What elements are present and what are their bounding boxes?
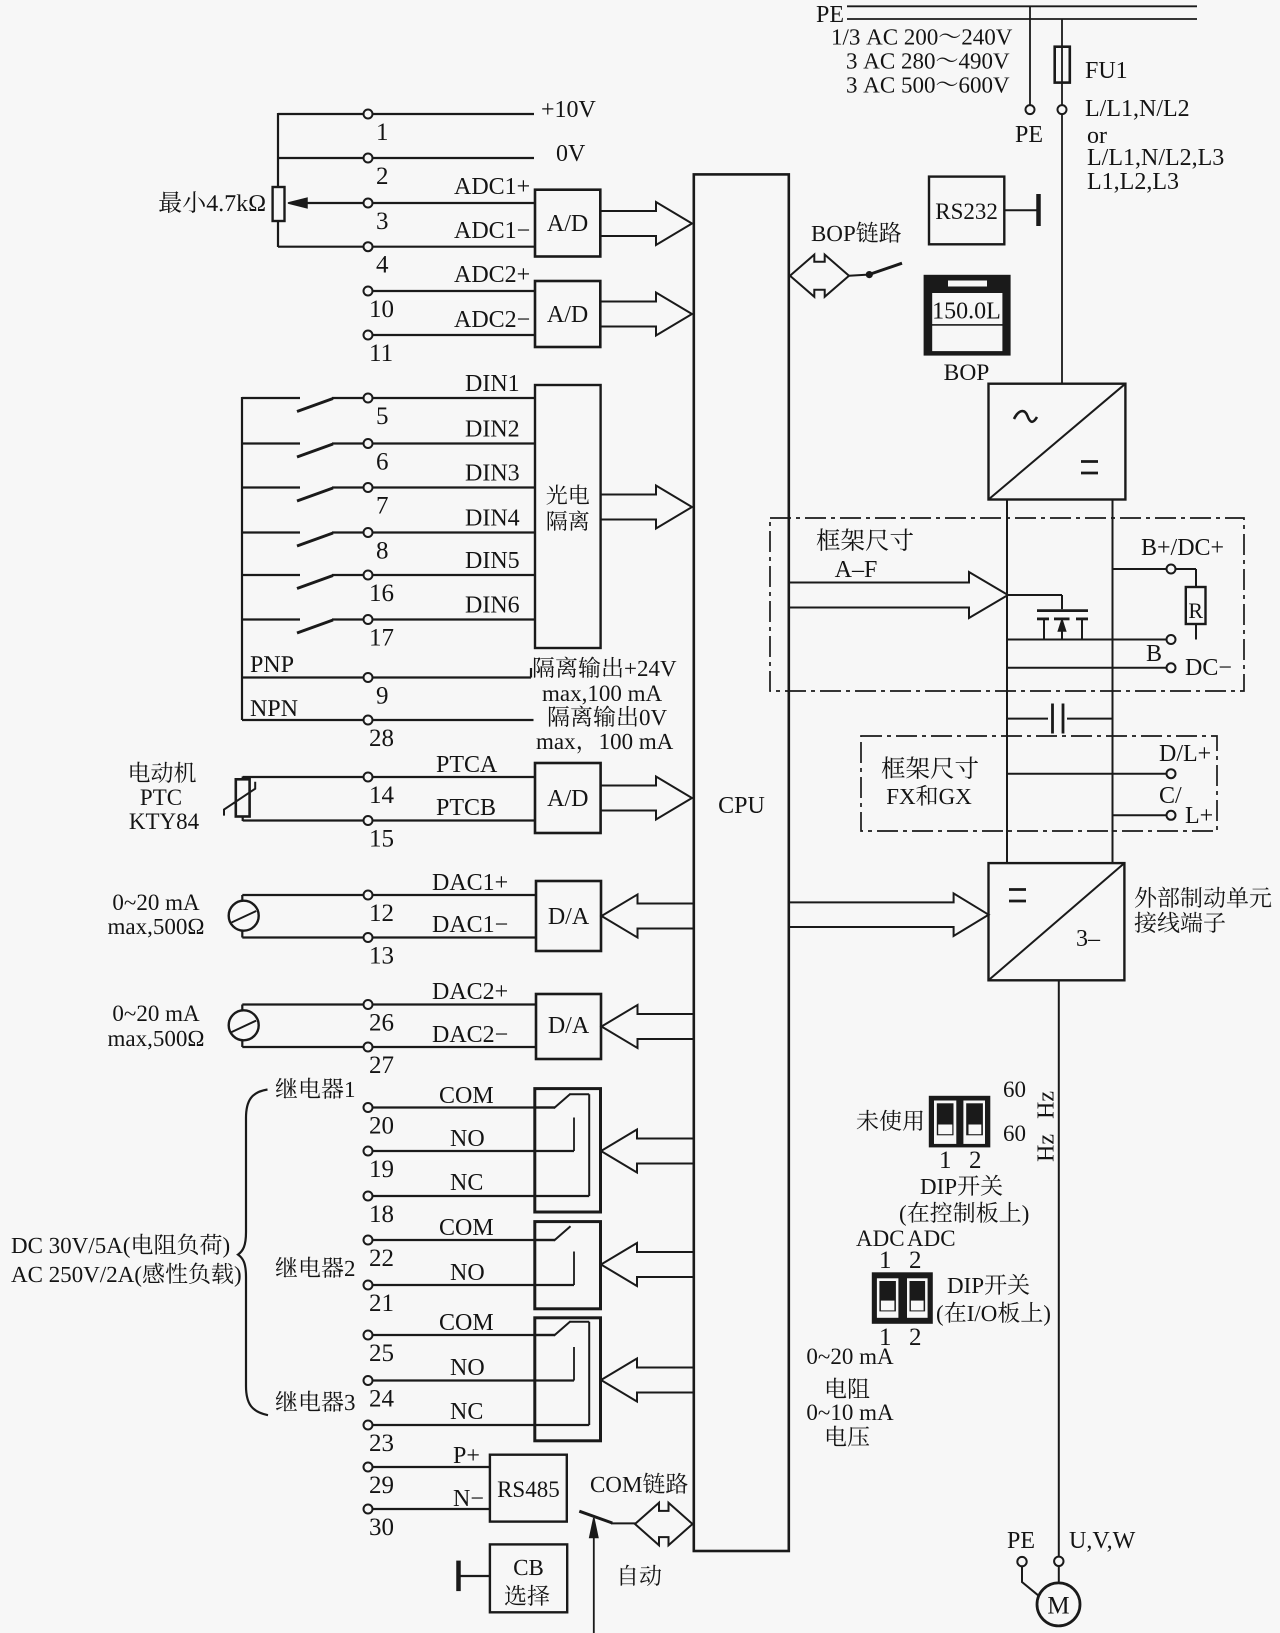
- svg-text:0~20 mA: 0~20 mA: [112, 1001, 200, 1026]
- node terminal 1: [364, 110, 373, 119]
- label 继电器3: [276, 1391, 355, 1412]
- wire resistor to B: [1195, 624, 1197, 640]
- wire PTCA terminal 14: [243, 776, 535, 778]
- svg-text:PTCB: PTCB: [436, 795, 496, 821]
- svg-text:N−: N−: [453, 1486, 484, 1512]
- svg-text:DIN4: DIN4: [465, 506, 520, 532]
- label FX和GX: [887, 785, 972, 806]
- svg-text:NO: NO: [450, 1260, 485, 1286]
- wire chopper output B: [1007, 639, 1167, 641]
- wire COM relay3 terminal 25: [372, 1334, 555, 1336]
- node terminal 14: [364, 773, 373, 782]
- current meter DAC1: [229, 901, 259, 931]
- label NPN: [251, 700, 298, 716]
- svg-text:24: 24: [369, 1386, 395, 1413]
- wire DIN2 stub: [242, 442, 300, 444]
- label max,500Ω (DAC2): [108, 1031, 203, 1050]
- node terminal 12: [364, 891, 373, 900]
- CB selection box: [490, 1544, 567, 1612]
- RS232 box: [929, 177, 1004, 245]
- svg-text:0~10 mA: 0~10 mA: [806, 1400, 894, 1425]
- node terminal 2: [364, 154, 373, 163]
- switch DIN4: [297, 533, 333, 546]
- svg-text:16: 16: [369, 580, 394, 607]
- svg-text:0V: 0V: [556, 141, 586, 167]
- switch DIN1: [297, 399, 333, 412]
- node terminal 22: [364, 1236, 373, 1245]
- relay box: [535, 1222, 601, 1309]
- svg-text:M: M: [1047, 1593, 1069, 1620]
- svg-text:25: 25: [369, 1340, 394, 1367]
- wire DIN2 terminal 6: [332, 442, 535, 444]
- svg-text:DIN3: DIN3: [465, 461, 520, 487]
- wire N- terminal 30: [372, 1508, 490, 1510]
- wire isolated output 0V terminal 28: [242, 719, 534, 721]
- wire DAC1- terminal 13: [242, 936, 536, 938]
- wire NC relay3 terminal 23: [372, 1424, 589, 1426]
- svg-text:U,V,W: U,V,W: [1069, 1528, 1136, 1554]
- node terminal 23: [364, 1421, 373, 1430]
- svg-text:1: 1: [939, 1147, 952, 1174]
- label 框架尺寸 (A-F): [817, 528, 913, 551]
- svg-text:23: 23: [369, 1430, 394, 1457]
- wire B+ to resistor: [1176, 568, 1197, 570]
- relay contact blade: [535, 1106, 555, 1108]
- svg-text:DAC1−: DAC1−: [432, 912, 508, 938]
- svg-text:PE: PE: [1015, 122, 1043, 148]
- svg-text:1: 1: [376, 119, 389, 146]
- opto-isolation box 光电隔离: [535, 385, 601, 648]
- label PNP: [251, 656, 293, 672]
- potentiometer wiper arrow: [307, 202, 364, 204]
- wire mains to rectifier: [1061, 114, 1063, 384]
- node terminal 21: [364, 1281, 373, 1290]
- label 继电器2: [276, 1257, 354, 1278]
- node DC- terminal: [1167, 663, 1176, 672]
- svg-text:17: 17: [369, 625, 394, 652]
- label 框架尺寸 (FX/GX): [882, 756, 978, 779]
- node terminal 26: [364, 1000, 373, 1009]
- svg-text:14: 14: [369, 782, 395, 809]
- svg-text:DIN1: DIN1: [465, 371, 520, 397]
- wire CB terminator: [460, 1575, 490, 1577]
- digital input bus wire: [241, 397, 243, 720]
- node terminal 10: [364, 287, 373, 296]
- svg-text:ADC1−: ADC1−: [454, 218, 530, 244]
- node terminal 18: [364, 1192, 373, 1201]
- svg-text:A/D: A/D: [547, 211, 588, 237]
- arrow CPU to braking chopper: [789, 572, 1008, 618]
- svg-text:0~20 mA: 0~20 mA: [112, 890, 200, 915]
- node B+/DC+ terminal: [1167, 565, 1176, 574]
- svg-text:ADC2+: ADC2+: [454, 262, 530, 288]
- svg-text:ADC2−: ADC2−: [454, 307, 530, 333]
- label ~ (rectifier): [1014, 411, 1037, 422]
- wire isolated output +24V terminal 9: [242, 676, 531, 678]
- node terminal 5: [364, 394, 373, 403]
- potentiometer bus wire: [277, 113, 279, 188]
- svg-text:3–: 3–: [1076, 926, 1101, 952]
- svg-text:28: 28: [369, 725, 394, 752]
- wire ADC2+ terminal 10: [368, 290, 535, 292]
- svg-text:Hz: Hz: [1034, 1134, 1060, 1162]
- arrow CPU to relay1: [601, 1130, 693, 1173]
- svg-text:A/D: A/D: [547, 302, 588, 328]
- svg-text:C/: C/: [1159, 783, 1182, 809]
- svg-text:2: 2: [909, 1324, 922, 1351]
- label 电动机: [130, 762, 195, 783]
- svg-text:27: 27: [369, 1052, 394, 1079]
- wire B+/DC+: [1113, 568, 1167, 570]
- node terminal 9: [364, 673, 373, 682]
- COM link double arrow: [635, 1503, 693, 1546]
- transistor braking chopper: [1007, 594, 1062, 596]
- potentiometer 4.7k: [273, 187, 285, 221]
- svg-text:21: 21: [369, 1290, 394, 1317]
- label 未使用: [857, 1110, 923, 1131]
- svg-text:RS232: RS232: [935, 199, 998, 224]
- svg-text:L/L1,N/L2: L/L1,N/L2: [1085, 96, 1190, 122]
- A/D converter box 1: [535, 190, 600, 257]
- svg-text:PE: PE: [1007, 1528, 1035, 1554]
- svg-text:1: 1: [879, 1247, 892, 1274]
- wire mains drop: [1061, 19, 1063, 105]
- svg-text:0~20 mA: 0~20 mA: [806, 1344, 894, 1369]
- svg-text:26: 26: [369, 1010, 394, 1037]
- svg-text:9: 9: [376, 683, 389, 710]
- svg-text:60: 60: [1003, 1077, 1026, 1102]
- BOP operator panel: [924, 275, 1011, 356]
- node terminal 29: [364, 1463, 373, 1472]
- label 接线端子: [1135, 912, 1225, 933]
- node terminal 7: [364, 483, 373, 492]
- svg-text:2: 2: [909, 1247, 922, 1274]
- wire ADC2- terminal 11: [368, 334, 535, 336]
- node terminal 20: [364, 1103, 373, 1112]
- svg-text:18: 18: [369, 1201, 394, 1228]
- label DIP开关 (control board): [921, 1175, 1003, 1196]
- node terminal 8: [364, 528, 373, 537]
- wire DC-: [1007, 667, 1167, 669]
- mains bus line: [847, 18, 1197, 20]
- current meter DAC2: [229, 1010, 259, 1040]
- svg-text:R: R: [1188, 598, 1203, 623]
- svg-text:Hz: Hz: [1034, 1091, 1060, 1119]
- wire BOP link to switch: [849, 274, 866, 277]
- wire DIN6 stub: [242, 618, 300, 620]
- switch DIN3: [297, 488, 333, 501]
- label 外部制动单元: [1135, 887, 1271, 908]
- wire ADC1- terminal 4: [278, 246, 535, 248]
- svg-text:BOP: BOP: [944, 360, 990, 386]
- svg-text:29: 29: [369, 1472, 394, 1499]
- svg-text:D/L+: D/L+: [1159, 741, 1211, 767]
- wire DIN5 stub: [242, 574, 300, 576]
- wire blade to COM link arrow: [611, 1522, 636, 1524]
- node terminal 15: [364, 816, 373, 825]
- motor output wire: [1058, 980, 1060, 1557]
- svg-text:DAC2−: DAC2−: [432, 1022, 508, 1048]
- svg-text:22: 22: [369, 1245, 394, 1272]
- label 电压: [827, 1426, 869, 1447]
- wire DIN6 terminal 17: [332, 618, 535, 620]
- svg-text:PTC: PTC: [140, 785, 182, 810]
- wire PE drop: [1029, 6, 1031, 105]
- svg-text:D/A: D/A: [548, 1013, 590, 1039]
- wire D/L+: [1007, 773, 1167, 775]
- label max，100 mA: [536, 734, 673, 754]
- svg-text:10: 10: [369, 296, 394, 323]
- label AC 250V/2A(感性负载): [11, 1262, 240, 1286]
- DIP switch block 2: [872, 1272, 933, 1324]
- node terminal 24: [364, 1376, 373, 1385]
- svg-text:30: 30: [369, 1514, 394, 1541]
- node terminal 16: [364, 571, 373, 580]
- wire DIN1 stub: [242, 397, 300, 399]
- node mains terminal: [1058, 105, 1067, 114]
- label 3 AC 500~600V: [847, 77, 1009, 93]
- motor M: [1037, 1583, 1080, 1626]
- RS232 connector bar: [1036, 194, 1041, 226]
- wire COM relay1 terminal 20: [372, 1106, 555, 1108]
- relay NO stub: [573, 1118, 575, 1152]
- label 电阻: [827, 1378, 870, 1399]
- svg-text:11: 11: [369, 340, 393, 367]
- svg-text:12: 12: [369, 900, 394, 927]
- relay NO stub: [573, 1252, 575, 1286]
- inverter box: [989, 863, 1125, 980]
- svg-text:max,100 mA: max,100 mA: [542, 681, 662, 706]
- D/A converter box 1: [536, 881, 601, 951]
- relay box: [535, 1318, 601, 1441]
- label 在I/O板上: [937, 1302, 1050, 1326]
- svg-text:L1,L2,L3: L1,L2,L3: [1087, 169, 1179, 195]
- node terminal 28: [364, 716, 373, 725]
- svg-text:B: B: [1146, 641, 1162, 667]
- svg-text:A–F: A–F: [835, 557, 878, 583]
- wire +10V terminal 1: [278, 113, 534, 115]
- wire DIN1 terminal 5: [332, 397, 535, 399]
- wire NO relay3 terminal 24: [372, 1379, 574, 1381]
- wire COM relay2 terminal 22: [372, 1239, 555, 1241]
- wire NO relay2 terminal 21: [372, 1284, 574, 1286]
- wire DIN3 terminal 7: [332, 486, 535, 488]
- label 隔离输出0V: [549, 705, 667, 726]
- svg-text:2: 2: [376, 163, 389, 190]
- arrow A/D2 to CPU: [600, 293, 692, 336]
- svg-text:NO: NO: [450, 1126, 485, 1152]
- svg-text:6: 6: [376, 449, 389, 476]
- node D/L+ terminal: [1167, 769, 1176, 778]
- DC link capacitor: [1007, 718, 1048, 720]
- svg-text:ADC1+: ADC1+: [454, 174, 530, 200]
- relay box: [535, 1089, 601, 1212]
- svg-text:KTY84: KTY84: [129, 809, 200, 834]
- svg-text:B+/DC+: B+/DC+: [1141, 535, 1224, 561]
- wire DAC1+ terminal 12: [242, 894, 536, 896]
- svg-text:19: 19: [369, 1156, 394, 1183]
- frame A-F dash-dot box: [770, 518, 1244, 691]
- svg-text:NC: NC: [450, 1399, 483, 1425]
- node terminal 13: [364, 933, 373, 942]
- relay contact blade: [535, 1334, 555, 1336]
- wire DIN5 terminal 16: [332, 574, 535, 576]
- A/D converter box 3: [535, 763, 601, 833]
- switch DIN5: [297, 576, 333, 589]
- svg-text:PE: PE: [816, 2, 844, 28]
- label = (rectifier): [1081, 460, 1098, 463]
- svg-text:DIN6: DIN6: [465, 593, 520, 619]
- arrow A/D1 to CPU: [600, 202, 692, 245]
- relay contact blade: [535, 1239, 555, 1241]
- label 在控制板上: [900, 1202, 1028, 1226]
- wire C/L+: [1113, 814, 1167, 816]
- svg-text:NC: NC: [450, 1170, 483, 1196]
- svg-text:DIN2: DIN2: [465, 417, 520, 443]
- wire RS232 port: [1004, 209, 1036, 211]
- arrow A/D3 to CPU: [601, 777, 692, 820]
- arrow CPU to relay2: [601, 1243, 693, 1286]
- label DIP开关 (I/O board): [948, 1274, 1030, 1295]
- svg-text:COM: COM: [439, 1215, 494, 1241]
- wire PTCB terminal 15: [243, 819, 535, 821]
- svg-text:COM: COM: [439, 1083, 494, 1109]
- svg-text:3: 3: [376, 208, 389, 235]
- thermistor PTC sensor: [236, 779, 250, 816]
- wire NC relay1 terminal 18: [372, 1195, 589, 1197]
- label 继电器1: [276, 1078, 354, 1099]
- node C/L+ terminal: [1167, 811, 1176, 820]
- label 自动: [621, 1565, 661, 1586]
- arrow CPU to D/A2: [602, 1005, 694, 1048]
- wire DAC2- terminal 27: [242, 1046, 536, 1048]
- fuse FU1: [1055, 47, 1070, 83]
- DIP switch block 1: [929, 1096, 991, 1148]
- svg-text:FU1: FU1: [1085, 58, 1128, 84]
- node terminal 11: [364, 331, 373, 340]
- wire DIN3 stub: [242, 486, 300, 488]
- svg-text:+10V: +10V: [541, 97, 597, 123]
- node PE terminal: [1026, 105, 1035, 114]
- wire 0V terminal 2: [278, 157, 534, 159]
- svg-text:2: 2: [969, 1147, 982, 1174]
- svg-text:L+: L+: [1185, 803, 1213, 829]
- node terminal 30: [364, 1505, 373, 1514]
- D/A converter box 2: [536, 994, 601, 1059]
- label DC 30V/5A(电阻负荷): [12, 1233, 229, 1257]
- BOP link selector dot: [866, 271, 873, 278]
- node terminal 19: [364, 1147, 373, 1156]
- svg-text:20: 20: [369, 1113, 394, 1140]
- arrow CPU to D/A1: [602, 895, 694, 938]
- PE bus line: [847, 5, 1197, 7]
- wire ADC1+ terminal 3: [372, 202, 535, 204]
- node UVW terminal: [1054, 1557, 1063, 1566]
- switch DIN2: [297, 444, 333, 457]
- CB terminator bar: [456, 1561, 461, 1592]
- label 最小4.7kΩ: [159, 191, 265, 213]
- label 3 AC 280~490V: [847, 53, 1009, 69]
- frame FX/GX dash-dot box: [861, 736, 1217, 831]
- svg-text:7: 7: [376, 493, 389, 520]
- BOP link selector blade: [872, 263, 902, 273]
- DC bus negative: [1112, 500, 1114, 864]
- wire P+ terminal 29: [372, 1466, 490, 1468]
- relay NO stub: [573, 1347, 575, 1381]
- svg-text:4: 4: [376, 252, 389, 279]
- arrow CPU to inverter: [789, 893, 989, 936]
- label max,500Ω (DAC1): [108, 919, 203, 938]
- svg-text:DC−: DC−: [1185, 655, 1232, 681]
- svg-text:60: 60: [1003, 1121, 1026, 1146]
- svg-text:DAC1+: DAC1+: [432, 870, 508, 896]
- arrow CPU to relay3: [601, 1359, 693, 1402]
- wire UVW to motor: [1058, 1566, 1060, 1581]
- wire NO relay1 terminal 19: [372, 1150, 574, 1152]
- node terminal 27: [364, 1043, 373, 1052]
- switch DIN6: [297, 620, 333, 633]
- svg-text:DAC2+: DAC2+: [432, 979, 508, 1005]
- A/D converter box 2: [535, 281, 600, 347]
- svg-text:A/D: A/D: [547, 786, 588, 812]
- label COM链路: [591, 1473, 688, 1494]
- node terminal 4: [364, 242, 373, 251]
- wire PE to motor: [1022, 1566, 1039, 1596]
- svg-text:P+: P+: [453, 1443, 480, 1469]
- svg-text:CPU: CPU: [718, 793, 765, 819]
- svg-text:150.0L: 150.0L: [932, 299, 1001, 325]
- brace for relay group: [238, 1090, 268, 1416]
- svg-text:DIN5: DIN5: [465, 548, 520, 574]
- svg-text:13: 13: [369, 943, 394, 970]
- svg-text:D/A: D/A: [548, 904, 590, 930]
- label 1/3 AC 200~240V: [833, 29, 1012, 45]
- label = (inverter): [1009, 888, 1026, 891]
- label 隔离输出+24V: [534, 656, 676, 677]
- svg-text:COM: COM: [439, 1310, 494, 1336]
- svg-text:15: 15: [369, 826, 394, 853]
- COM link selector switch blade: [579, 1511, 612, 1523]
- braking resistor R: [1186, 587, 1206, 624]
- svg-text:RS485: RS485: [497, 1477, 560, 1502]
- node terminal 17: [364, 615, 373, 624]
- DC bus positive: [1006, 500, 1008, 864]
- node terminal 6: [364, 439, 373, 448]
- wire DIN4 terminal 8: [332, 531, 535, 533]
- wire DAC2+ terminal 26: [242, 1003, 536, 1005]
- node terminal 3: [364, 199, 373, 208]
- svg-text:L/L1,N/L2,L3: L/L1,N/L2,L3: [1087, 145, 1224, 171]
- RS485 box: [490, 1455, 567, 1522]
- arrow opto to CPU: [601, 486, 692, 529]
- rectifier box: [989, 384, 1126, 500]
- node terminal 25: [364, 1331, 373, 1340]
- CPU box: [694, 174, 789, 1551]
- svg-text:8: 8: [376, 538, 389, 565]
- auto select arrow 自动: [593, 1537, 595, 1633]
- node PE motor terminal: [1017, 1557, 1026, 1566]
- label BOP链路: [812, 222, 901, 243]
- wire DIN4 stub: [242, 531, 300, 533]
- node B terminal: [1167, 635, 1176, 644]
- svg-text:PTCA: PTCA: [436, 752, 498, 778]
- svg-text:5: 5: [376, 403, 389, 430]
- BOP link double arrow: [790, 255, 849, 297]
- svg-text:NO: NO: [450, 1355, 485, 1381]
